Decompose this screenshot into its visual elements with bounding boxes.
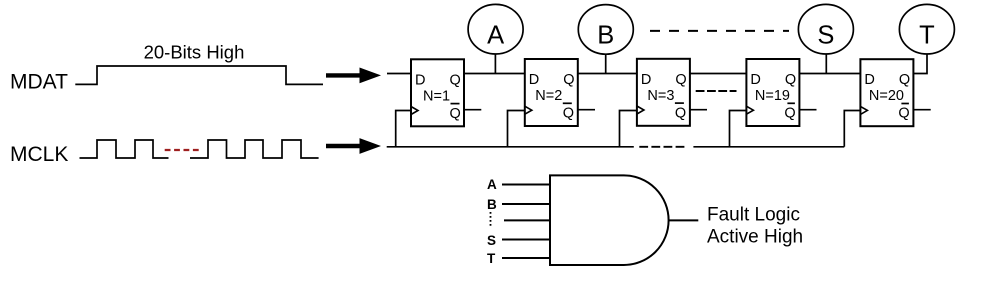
- clock rail solid right: [693, 146, 844, 148]
- svg-text:Q: Q: [563, 72, 574, 88]
- flip-flop N=3: [637, 59, 690, 126]
- svg-text:Q: Q: [450, 72, 461, 88]
- svg-text:20-Bits High: 20-Bits High: [144, 41, 245, 62]
- node A circle: [468, 4, 523, 54]
- clock riser to FF1: [396, 111, 411, 147]
- wire Q-bar stub FF19: [799, 109, 816, 111]
- svg-text:N=2: N=2: [535, 88, 562, 104]
- wire Q1 to D2: [464, 73, 525, 75]
- svg-text:Active High: Active High: [707, 227, 803, 248]
- clock rail dashed break: [639, 146, 685, 148]
- AND gate input wire T: [502, 257, 550, 259]
- svg-text:Q: Q: [675, 72, 686, 88]
- svg-text:Fault Logic: Fault Logic: [707, 205, 800, 226]
- svg-text:MCLK: MCLK: [10, 143, 68, 166]
- arrow MDAT to shift register: [326, 68, 381, 84]
- dashed continuation node B to node S: [650, 30, 789, 32]
- svg-text:Q: Q: [899, 72, 910, 88]
- clock rail solid left: [387, 146, 634, 148]
- svg-text:MDAT: MDAT: [10, 71, 68, 94]
- MCLK waveform left segment: [80, 140, 169, 158]
- clock riser to FF2: [508, 111, 525, 147]
- svg-text:A: A: [487, 22, 504, 50]
- wire Q3 to D19: [690, 73, 747, 75]
- wire Q20 to node T: [913, 54, 927, 74]
- svg-text:Q: Q: [898, 106, 909, 122]
- wire Q-bar stub FF2: [578, 109, 595, 111]
- flip-flop N=2: [525, 59, 578, 126]
- svg-text:D: D: [641, 72, 651, 88]
- AND gate output wire: [669, 219, 699, 221]
- wire Q-bar stub FF1: [464, 109, 481, 111]
- node B circle: [578, 5, 633, 55]
- wire node B drop: [605, 54, 607, 74]
- svg-text:D: D: [750, 72, 760, 88]
- svg-text:S: S: [817, 22, 834, 50]
- dashed continuation FF3 to FF19: [696, 90, 737, 92]
- svg-text:N=3: N=3: [647, 88, 674, 104]
- wire Q2 to D3: [578, 73, 637, 75]
- MCLK waveform right segment: [190, 140, 319, 158]
- flip-flop N=20: [860, 59, 913, 126]
- wire D input to FF1: [387, 73, 411, 75]
- clock riser to FF20: [844, 111, 860, 147]
- svg-text:B: B: [597, 22, 614, 50]
- svg-text:N=19: N=19: [755, 88, 790, 104]
- svg-text:D: D: [415, 72, 425, 88]
- AND gate input wire B: [502, 203, 550, 205]
- arrow MCLK to clock rail: [326, 138, 381, 154]
- svg-text:A: A: [487, 177, 497, 192]
- svg-text:Q: Q: [675, 105, 686, 121]
- clock riser to FF3: [620, 111, 637, 147]
- svg-text:Q: Q: [785, 72, 796, 88]
- AND gate input wire A: [502, 184, 550, 186]
- clock riser to FF19: [730, 111, 747, 147]
- wire Q-bar stub FF3: [690, 109, 707, 111]
- svg-text:D: D: [529, 72, 539, 88]
- svg-text:B: B: [487, 197, 497, 212]
- AND gate input wire S: [502, 239, 550, 241]
- svg-text:N=1: N=1: [423, 88, 450, 104]
- node T circle: [899, 4, 954, 54]
- MCLK waveform break red dashes: [165, 149, 200, 151]
- svg-text:Q: Q: [784, 106, 795, 122]
- AND gate input wire middle: [504, 219, 550, 221]
- AND gate: [550, 175, 669, 265]
- svg-text:S: S: [487, 233, 496, 248]
- svg-text:T: T: [487, 251, 496, 266]
- node S circle: [798, 4, 853, 54]
- svg-text:T: T: [919, 22, 935, 50]
- svg-text:Q: Q: [563, 106, 574, 122]
- dotted ellipsis between B and S: [490, 212, 492, 228]
- wire node S drop: [825, 54, 827, 74]
- svg-text:Q: Q: [450, 106, 461, 122]
- svg-text:D: D: [864, 72, 874, 88]
- svg-text:N=20: N=20: [869, 88, 904, 104]
- wire Q19 to D20: [799, 73, 860, 75]
- flip-flop N=1: [411, 59, 464, 126]
- wire Q-bar stub FF20: [913, 109, 930, 111]
- MDAT waveform: [75, 66, 323, 84]
- wire node A drop: [494, 54, 496, 74]
- flip-flop N=19: [746, 59, 799, 126]
